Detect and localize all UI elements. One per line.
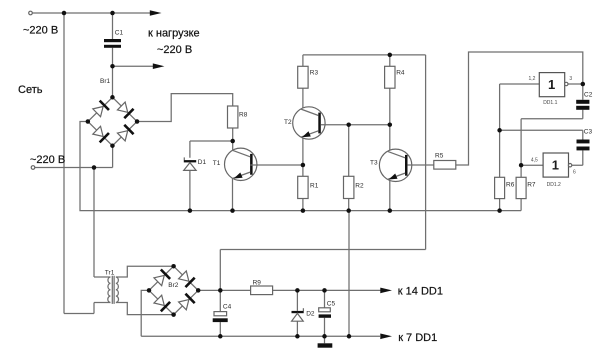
svg-text:T1: T1 [213,160,221,167]
svg-text:D2: D2 [306,310,315,317]
svg-text:R9: R9 [253,279,262,286]
svg-text:DD1.2: DD1.2 [547,182,561,188]
svg-text:T3: T3 [370,160,378,167]
svg-text:C1: C1 [115,30,124,37]
svg-text:Сеть: Сеть [18,84,43,96]
svg-text:к 14 DD1: к 14 DD1 [398,285,443,297]
svg-text:6: 6 [573,169,576,175]
svg-text:R8: R8 [239,112,248,119]
svg-text:R6: R6 [506,182,515,189]
svg-text:R1: R1 [310,183,319,190]
svg-text:C2: C2 [584,91,593,98]
svg-text:D1: D1 [198,159,207,166]
svg-text:1,2: 1,2 [529,76,536,82]
svg-text:Br1: Br1 [100,78,111,85]
svg-text:к нагрузке: к нагрузке [148,27,200,39]
svg-text:3: 3 [569,76,572,82]
svg-text:C4: C4 [223,304,232,311]
svg-text:DD1.1: DD1.1 [543,100,557,106]
svg-text:Br2: Br2 [168,282,179,289]
svg-text:R4: R4 [396,70,405,77]
svg-text:1: 1 [552,158,559,173]
svg-text:~220 В: ~220 В [23,25,58,37]
svg-text:R7: R7 [527,181,536,188]
svg-text:Tr1: Tr1 [105,269,115,276]
svg-text:C3: C3 [584,129,593,136]
svg-text:R5: R5 [435,153,444,160]
svg-text:~220 В: ~220 В [30,154,65,166]
svg-text:T2: T2 [284,119,292,126]
svg-text:R2: R2 [355,183,364,190]
svg-text:R3: R3 [310,70,319,77]
svg-text:C5: C5 [327,301,336,308]
svg-text:~220 В: ~220 В [157,44,192,56]
svg-text:1: 1 [548,77,555,92]
svg-text:к 7 DD1: к 7 DD1 [398,332,437,344]
svg-text:4,5: 4,5 [531,157,538,163]
